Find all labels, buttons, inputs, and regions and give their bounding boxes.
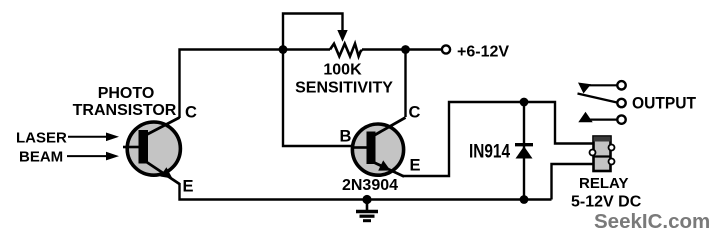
relay contact NO wire — [589, 118, 617, 120]
node junction pot right — [401, 45, 410, 54]
phototransistor Q1 body — [127, 122, 180, 175]
relay armature — [578, 94, 618, 103]
node diode top junction — [520, 98, 529, 107]
svg-text:IN914: IN914 — [469, 142, 510, 163]
relay contact NC wire — [586, 84, 617, 86]
wire Q1 emitter riser + bottom rail — [180, 183, 552, 200]
ground — [356, 200, 378, 221]
Q1 emitter arrowhead — [160, 167, 172, 178]
Q1 base lead — [123, 146, 139, 149]
Q2 emitter lead — [373, 162, 404, 177]
wire relay coil bottom to rail — [552, 164, 595, 200]
node junction pot left — [279, 45, 288, 54]
laser arrow — [68, 136, 108, 138]
svg-text:B: B — [340, 128, 352, 146]
wire pot wiper loop — [283, 14, 343, 50]
supply terminal circle — [442, 45, 450, 53]
pot wiper arrowhead — [337, 30, 347, 42]
svg-text:RELAY: RELAY — [579, 175, 628, 192]
svg-text:BEAM: BEAM — [19, 149, 63, 166]
svg-text:E: E — [410, 157, 421, 175]
svg-text:E: E — [183, 178, 194, 196]
svg-text:PHOTO: PHOTO — [98, 85, 155, 102]
node ground junction — [362, 195, 371, 204]
wire top rail right to supply terminal — [362, 48, 442, 50]
transistor Q2 2N3904 body — [352, 124, 403, 175]
Q2 collector lead — [373, 118, 406, 137]
wire base drop from pot left junction to Q2 base — [283, 50, 353, 147]
Q2 emitter arrowhead — [378, 160, 390, 170]
resistor R1 100K zigzag — [330, 44, 362, 57]
Q1 collector lead — [145, 118, 180, 136]
wire Q2 collector riser — [404, 50, 406, 118]
relay contact NO terminal — [617, 115, 625, 123]
Q1 base bar — [139, 130, 149, 164]
svg-text:100K: 100K — [323, 62, 362, 79]
svg-text:5-12V DC: 5-12V DC — [571, 194, 642, 211]
svg-text:LASER: LASER — [16, 130, 67, 147]
wire diode branch vertical — [523, 102, 525, 200]
svg-text:OUTPUT: OUTPUT — [632, 95, 696, 113]
diode D1 triangle — [516, 146, 533, 158]
relay coil K1 — [590, 137, 615, 172]
svg-text:+6-12V: +6-12V — [457, 44, 509, 61]
svg-text:SeekIC.com: SeekIC.com — [594, 210, 710, 233]
svg-text:TRANSISTOR: TRANSISTOR — [73, 102, 177, 119]
Q1 emitter lead — [145, 161, 180, 184]
diode D1 cathode bar — [515, 143, 533, 146]
node diode bottom junction — [520, 195, 529, 204]
relay contact NC terminal — [617, 81, 625, 89]
beam arrow — [67, 155, 108, 157]
svg-text:C: C — [409, 104, 421, 122]
relay contact NC triangle — [578, 83, 591, 94]
svg-text:C: C — [185, 104, 197, 122]
relay common terminal — [617, 99, 625, 107]
wire Q2 emitter run to relay coil top — [403, 102, 594, 176]
wire top rail left (phototransistor collector to pot) — [180, 50, 331, 119]
Q2 base lead — [353, 146, 367, 149]
Q2 base bar — [367, 132, 376, 165]
relay contact NO triangle — [578, 112, 592, 123]
svg-text:SENSITIVITY: SENSITIVITY — [295, 80, 393, 97]
svg-text:2N3904: 2N3904 — [342, 177, 398, 194]
